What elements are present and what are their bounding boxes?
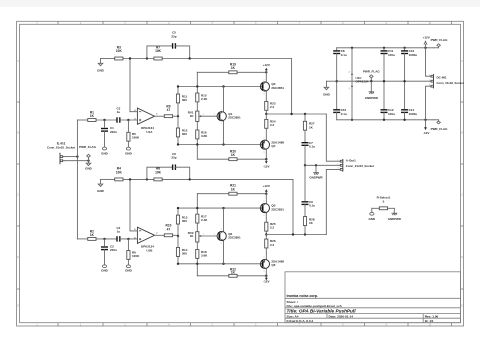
ground GND (circle) bbox=[101, 147, 109, 155]
wire bbox=[101, 178, 115, 180]
resistor R25 2.2 bbox=[265, 213, 276, 235]
wire input to resistor R1 bbox=[77, 119, 87, 121]
svg-text:300: 300 bbox=[182, 98, 187, 102]
svg-text:Conn_01x02_Socket: Conn_01x02_Socket bbox=[47, 146, 75, 150]
svg-text:GND: GND bbox=[97, 189, 105, 193]
wire output ch2 to connector pin3 bbox=[326, 169, 340, 234]
capacitor C1 220n bbox=[101, 120, 117, 147]
title block sheet line bbox=[287, 300, 298, 304]
svg-text:GND: GND bbox=[101, 151, 109, 155]
power flag +12V bbox=[431, 38, 448, 48]
svg-text:A-Out1: A-Out1 bbox=[346, 159, 356, 163]
svg-text:3.6K: 3.6K bbox=[201, 134, 208, 138]
title block rev bbox=[425, 314, 439, 318]
title block company name bbox=[287, 294, 319, 298]
ground GND (circle) bbox=[125, 147, 133, 155]
title block date bbox=[329, 314, 354, 318]
capacitor C9 0.1u bbox=[302, 165, 316, 216]
svg-text:100u: 100u bbox=[388, 53, 395, 57]
svg-text:3.6K: 3.6K bbox=[201, 254, 208, 258]
wire feedback to output riser bbox=[162, 178, 293, 180]
connector IL-In1 (Conn_01x02_Socket) bbox=[47, 142, 75, 165]
svg-text:U1A: U1A bbox=[146, 130, 153, 134]
svg-text:PWR_FLAG: PWR_FLAG bbox=[431, 38, 448, 42]
svg-text:2.4K: 2.4K bbox=[201, 218, 208, 222]
wire -12V rail bbox=[337, 119, 434, 121]
wire pin2 net bbox=[65, 160, 89, 162]
power +12V bbox=[263, 63, 270, 72]
svg-text:1u: 1u bbox=[117, 110, 121, 114]
wire DC riser top bbox=[426, 48, 431, 76]
svg-text:KiCad E.D.A. 8.0.4: KiCad E.D.A. 8.0.4 bbox=[287, 319, 314, 323]
wire wiper to driver base bbox=[202, 114, 218, 116]
transistor Q4 2SA1488 (PNP) bbox=[260, 138, 284, 159]
resistor R27 1K bbox=[303, 114, 314, 142]
wire feedback to output riser bbox=[162, 58, 291, 60]
svg-text:GND: GND bbox=[323, 92, 331, 96]
svg-text:2.2: 2.2 bbox=[270, 105, 275, 109]
svg-text:GNDPWR: GNDPWR bbox=[309, 176, 323, 180]
ground GND feedback bbox=[97, 179, 105, 193]
ground GND feedback bbox=[97, 59, 105, 73]
resistor R8 10K bbox=[154, 167, 162, 181]
ground GNDPWR mid bbox=[365, 81, 379, 100]
svg-text:-12V: -12V bbox=[263, 279, 269, 283]
wire bbox=[120, 119, 138, 121]
svg-text:+12V: +12V bbox=[263, 63, 270, 67]
potentiometer RV1 1K bbox=[188, 110, 202, 121]
svg-text:Conn_01x03_Socket: Conn_01x03_Socket bbox=[437, 81, 464, 85]
wire output bbox=[266, 113, 326, 115]
junction bbox=[177, 115, 179, 117]
junction bbox=[127, 238, 129, 240]
wire input riser to both channels bbox=[76, 120, 78, 239]
connector A-Out1 (Conn_01x03_Socket) bbox=[337, 159, 374, 172]
svg-text:10K: 10K bbox=[155, 49, 162, 53]
svg-text:Conn_01x03_Socket: Conn_01x03_Socket bbox=[346, 164, 374, 168]
wire feedback riser bbox=[292, 179, 294, 234]
potentiometer RV2 1K bbox=[188, 231, 202, 242]
svg-text:220n: 220n bbox=[110, 130, 117, 134]
svg-text:300: 300 bbox=[182, 252, 187, 256]
svg-text:1K: 1K bbox=[231, 187, 236, 191]
junction bbox=[103, 119, 105, 121]
svg-text:GND: GND bbox=[368, 217, 376, 221]
op-amp U1A OPA2134 bbox=[134, 108, 158, 134]
junction -12V node bbox=[265, 158, 267, 160]
capacitor C6 22p bbox=[147, 152, 190, 180]
svg-text:PWR_FLAG: PWR_FLAG bbox=[431, 127, 448, 131]
wire middle bias column bbox=[196, 72, 198, 159]
capacitor C5 22p bbox=[147, 31, 190, 59]
svg-text:10K: 10K bbox=[116, 49, 123, 53]
resistor R24 2.2 bbox=[265, 114, 276, 140]
svg-text:+12V: +12V bbox=[263, 184, 270, 188]
ground GND (circle) bbox=[125, 265, 133, 273]
svg-text:PWR_FLAG: PWR_FLAG bbox=[363, 69, 380, 73]
junction U1C rails bbox=[351, 119, 353, 121]
resistor R12 300 bbox=[176, 128, 187, 137]
svg-text:1K: 1K bbox=[231, 270, 236, 274]
resistor R16 3.6K bbox=[196, 130, 208, 139]
title block size bbox=[287, 314, 299, 318]
ground GND power bbox=[323, 81, 337, 96]
transistor Q3 2SC3851 (NPN) bbox=[260, 72, 284, 95]
svg-text:Title: OPA BI-Variable PushPul: Title: OPA BI-Variable PushPull bbox=[287, 309, 357, 314]
junction input riser bbox=[76, 155, 78, 157]
resistor R11 300 bbox=[176, 94, 187, 103]
power flag input bbox=[79, 145, 96, 161]
wire bbox=[123, 178, 154, 180]
junction pin2 net bbox=[87, 160, 89, 162]
power flag -12V bbox=[431, 120, 448, 131]
junction output node bbox=[265, 113, 267, 115]
wire mid GND rail bbox=[337, 80, 431, 82]
svg-text:1K: 1K bbox=[90, 233, 95, 237]
wire output ch1 to connector pin1 bbox=[326, 114, 340, 161]
power +12V bbox=[263, 184, 270, 194]
resistor R6 100K bbox=[127, 239, 140, 265]
svg-text:GND: GND bbox=[97, 69, 105, 73]
svg-text:300: 300 bbox=[182, 132, 187, 136]
wire op-amp output bbox=[154, 115, 164, 117]
resistor R3 10K bbox=[115, 46, 123, 60]
svg-text:10K: 10K bbox=[155, 170, 162, 174]
wire inverting input bbox=[130, 59, 137, 112]
resistor R1 1K bbox=[88, 110, 96, 121]
op-amp U1C power unit OPA2134 bbox=[349, 48, 369, 120]
transistor Q5 2SC3851 (NPN) bbox=[260, 194, 284, 218]
svg-text:GND: GND bbox=[101, 269, 109, 273]
ground GND R-Select bbox=[368, 212, 376, 220]
wire +12V rail bbox=[337, 47, 434, 49]
wire middle bias column bbox=[196, 194, 198, 276]
resistor R14 300 bbox=[176, 248, 187, 257]
junction node feedback bbox=[129, 178, 148, 180]
svg-text:1u: 1u bbox=[117, 229, 121, 233]
svg-text:100K: 100K bbox=[132, 254, 140, 258]
svg-text:10K: 10K bbox=[116, 170, 123, 174]
wire bbox=[96, 119, 117, 121]
capacitor C3 1u bbox=[116, 107, 120, 123]
wire DC riser bottom bbox=[426, 86, 431, 120]
svg-text:1K: 1K bbox=[231, 66, 236, 70]
transistor Q1 2SC3851 (driver) bbox=[217, 87, 241, 145]
svg-text:File: opa-variable-pushpull.ki: File: opa-variable-pushpull.kicad_sch bbox=[287, 304, 342, 308]
capacitor C11 100u bbox=[381, 48, 396, 81]
title block kicad version bbox=[287, 319, 314, 323]
resistor R26 2.2 bbox=[265, 235, 276, 260]
svg-text:47: 47 bbox=[167, 227, 171, 231]
svg-text:PWR_FLAG: PWR_FLAG bbox=[79, 145, 96, 149]
ground GNDPWR R-Select bbox=[388, 213, 402, 221]
wire left bias column bbox=[177, 208, 179, 264]
svg-text:2.2: 2.2 bbox=[270, 123, 275, 127]
wire bias rail bottom bbox=[178, 263, 263, 265]
junction rail bottom bbox=[383, 119, 427, 121]
wire wiper to driver base bbox=[202, 234, 218, 236]
capacitor C10 0.1u bbox=[333, 108, 347, 120]
junction bbox=[383, 80, 385, 82]
resistor R18 3.6K bbox=[196, 249, 208, 258]
wire input pin1 to riser bbox=[65, 156, 77, 158]
svg-text:Rev: 1.00: Rev: 1.00 bbox=[425, 314, 439, 318]
svg-text:Id: 1/1: Id: 1/1 bbox=[425, 319, 434, 323]
svg-text:U1B: U1B bbox=[146, 248, 153, 252]
svg-text:2SC3851: 2SC3851 bbox=[271, 207, 284, 211]
power -12V input bbox=[423, 120, 429, 135]
resistor R2 1K bbox=[88, 230, 96, 241]
transistor Q2 2SC3851 (driver) bbox=[217, 208, 241, 264]
capacitor C12 100u bbox=[381, 81, 396, 120]
svg-text:Size: A4: Size: A4 bbox=[287, 314, 299, 318]
svg-text:OPA2134: OPA2134 bbox=[356, 80, 369, 84]
svg-text:GND: GND bbox=[125, 151, 133, 155]
resistor R17 2.4K bbox=[196, 214, 208, 223]
svg-text:0.1u: 0.1u bbox=[309, 145, 315, 149]
wire gnd net to connector bbox=[305, 164, 340, 166]
svg-text:Q4: Q4 bbox=[271, 144, 275, 148]
wire output bbox=[266, 234, 326, 236]
junction rail top bbox=[351, 47, 427, 49]
svg-text:2SC3851: 2SC3851 bbox=[228, 116, 241, 120]
svg-text:2SC3851: 2SC3851 bbox=[228, 235, 241, 239]
svg-text:0.1u: 0.1u bbox=[341, 112, 347, 116]
wire left bias column bbox=[177, 87, 179, 145]
capacitor C14 1000u bbox=[401, 81, 417, 120]
junction bbox=[292, 233, 306, 235]
svg-text:GND: GND bbox=[85, 166, 93, 170]
power -12V bbox=[263, 159, 269, 168]
power +12V input bbox=[423, 36, 430, 48]
sheet frame inner border bbox=[20, 24, 461, 322]
ground GND (circle) bbox=[101, 265, 109, 273]
transistor Q6 2SA1488 (PNP) bbox=[260, 257, 284, 276]
resistor R13 300 bbox=[176, 215, 187, 224]
wire bias rail top bbox=[178, 86, 263, 88]
wire bbox=[120, 238, 138, 240]
svg-text:2SC3851: 2SC3851 bbox=[271, 86, 284, 90]
resistor R22 1K bbox=[197, 267, 266, 277]
junction bbox=[304, 164, 317, 166]
capacitor C8 0.1u bbox=[333, 48, 347, 110]
svg-text:1K: 1K bbox=[90, 114, 95, 118]
wire bias rail bottom bbox=[178, 144, 263, 146]
resistor R19 1K bbox=[197, 63, 266, 74]
capacitor C7 0.1u bbox=[302, 141, 316, 165]
junction bbox=[127, 119, 129, 121]
svg-text:GND: GND bbox=[125, 269, 133, 273]
junction bbox=[189, 57, 191, 59]
svg-text:GNDPWR: GNDPWR bbox=[388, 217, 402, 221]
svg-text:2.2: 2.2 bbox=[270, 226, 275, 230]
svg-text:2.2: 2.2 bbox=[270, 243, 275, 247]
resistor R7 10K bbox=[154, 46, 162, 60]
junction node feedback bbox=[129, 57, 148, 59]
resistor R5 100K bbox=[127, 120, 140, 147]
svg-text:1K: 1K bbox=[231, 153, 236, 157]
svg-text:DC-IN1: DC-IN1 bbox=[437, 76, 447, 80]
title block box and dividers bbox=[285, 272, 461, 323]
junction rail crossings bbox=[177, 207, 225, 265]
svg-text:Date: 2026-01-14: Date: 2026-01-14 bbox=[329, 314, 354, 318]
wire inverting input bbox=[130, 179, 137, 231]
title block title bbox=[287, 309, 357, 314]
svg-text:-12V: -12V bbox=[263, 164, 269, 168]
svg-text:22p: 22p bbox=[171, 34, 176, 38]
title block file line bbox=[287, 304, 342, 308]
svg-text:100u: 100u bbox=[388, 112, 395, 116]
junction gnd tap bbox=[336, 80, 338, 82]
junction bbox=[403, 80, 405, 82]
wire bbox=[173, 115, 178, 117]
svg-text:0.1u: 0.1u bbox=[309, 204, 315, 208]
svg-text:1000u: 1000u bbox=[409, 53, 418, 57]
junction +12V node bbox=[265, 71, 267, 73]
svg-text:+12V: +12V bbox=[423, 36, 430, 40]
svg-text:22p: 22p bbox=[171, 156, 176, 160]
svg-text:300: 300 bbox=[182, 219, 187, 223]
ground GND input bbox=[85, 161, 93, 171]
power -12V bbox=[263, 276, 269, 283]
wire bbox=[173, 234, 178, 236]
svg-text:0.1u: 0.1u bbox=[341, 53, 347, 57]
svg-text:2.4K: 2.4K bbox=[201, 97, 208, 101]
resistor R10 47 bbox=[164, 224, 172, 237]
resistor R15 2.4K bbox=[196, 93, 208, 102]
junction bbox=[370, 80, 372, 82]
wire op-amp output bbox=[154, 234, 164, 236]
junction bbox=[103, 238, 105, 240]
capacitor C13 1000u bbox=[401, 48, 417, 81]
wire bbox=[96, 238, 117, 240]
svg-text:tromba noise.corp.: tromba noise.corp. bbox=[287, 294, 319, 298]
junction -12V node bbox=[265, 275, 267, 277]
junction bbox=[290, 113, 306, 115]
wire input to resistor R2 bbox=[77, 238, 87, 240]
resistor R9 47 bbox=[164, 104, 172, 117]
junction rail crossings bbox=[177, 85, 225, 145]
svg-text:-12V: -12V bbox=[423, 131, 429, 135]
junction bbox=[189, 178, 191, 180]
resistor R21 1K bbox=[197, 184, 266, 196]
wire bias rail top bbox=[178, 207, 263, 209]
resistor R4 10K bbox=[115, 167, 123, 181]
junction output node bbox=[265, 233, 267, 235]
power flag mid bbox=[363, 69, 380, 81]
svg-text:100K: 100K bbox=[132, 136, 140, 140]
connector DC-IN1 (Conn_01x03_Socket) bbox=[429, 74, 464, 88]
junction bbox=[177, 235, 179, 237]
resistor R28 1K bbox=[303, 217, 314, 235]
title block id bbox=[425, 319, 434, 323]
resistor R23 2.2 bbox=[265, 91, 276, 114]
wire bbox=[123, 58, 154, 60]
resistor R-Select1 0 bbox=[372, 195, 395, 213]
svg-text:1000u: 1000u bbox=[409, 112, 418, 116]
op-amp U1B OPA2134 bbox=[134, 227, 158, 252]
capacitor C2 220n bbox=[101, 239, 117, 265]
svg-text:220n: 220n bbox=[110, 248, 117, 252]
svg-text:Q6: Q6 bbox=[271, 263, 275, 267]
capacitor C4 1u bbox=[116, 226, 120, 242]
junction +12V node bbox=[265, 193, 267, 195]
svg-text:47: 47 bbox=[167, 108, 171, 112]
resistor R20 1K bbox=[197, 149, 266, 160]
wire bbox=[101, 58, 115, 60]
wire feedback riser bbox=[291, 59, 293, 115]
svg-text:GNDPWR: GNDPWR bbox=[365, 96, 379, 100]
ground GNDPWR output bbox=[309, 165, 323, 179]
